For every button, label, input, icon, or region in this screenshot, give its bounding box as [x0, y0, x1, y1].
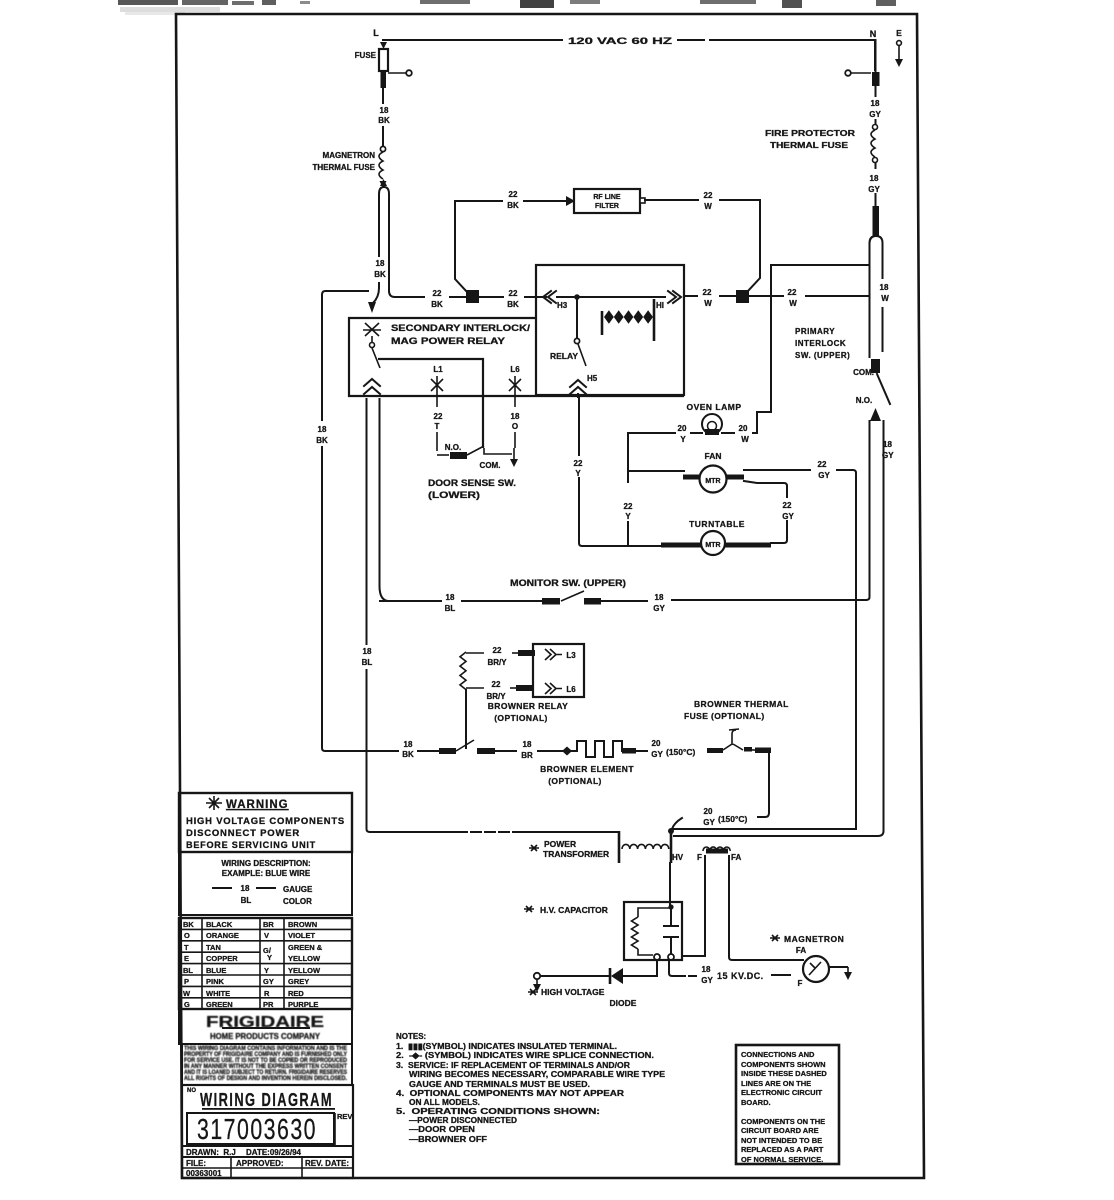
svg-text:(150°C): (150°C): [666, 747, 696, 757]
drawing border frame: [176, 14, 924, 1178]
svg-text:COMPONENTS ON THE: COMPONENTS ON THE: [741, 1117, 825, 1126]
lamp L6: [509, 365, 521, 399]
wire H3 to heater: [557, 294, 654, 300]
svg-text:BK: BK: [431, 300, 443, 309]
svg-text:GAUGE: GAUGE: [283, 885, 313, 894]
svg-text:L: L: [373, 28, 379, 38]
svg-text:ON ALL MODELS.: ON ALL MODELS.: [409, 1098, 480, 1107]
svg-text:TRANSFORMER: TRANSFORMER: [543, 849, 609, 859]
svg-text:18: 18: [883, 440, 892, 449]
insulated terminal (22W wire): [736, 290, 749, 303]
fan motor: [683, 451, 744, 493]
contact H1: [655, 291, 681, 310]
svg-text:APPROVED:: APPROVED:: [236, 1159, 284, 1168]
primary interlock sw (upper): [795, 236, 892, 360]
svg-text:GY: GY: [882, 451, 894, 460]
svg-text:YELLOW: YELLOW: [288, 954, 321, 963]
primary interlock COM contact: [853, 359, 890, 421]
svg-text:1. ▮▮▮(SYMBOL) INDICATES INSU: 1. ▮▮▮(SYMBOL) INDICATES INSULATED TERMI…: [396, 1042, 617, 1051]
svg-text:COPPER: COPPER: [206, 954, 238, 963]
svg-text:COLOR: COLOR: [283, 897, 312, 906]
secondary interlock box: [349, 318, 684, 396]
svg-text:Y: Y: [625, 512, 631, 521]
oven lamp: [686, 402, 741, 435]
svg-text:FIRE PROTECTOR: FIRE PROTECTOR: [765, 129, 855, 138]
transformer secondary leads: [670, 856, 803, 960]
fire protector thermal fuse: [765, 125, 878, 163]
svg-text:WARNING: WARNING: [226, 799, 289, 811]
svg-text:18: 18: [446, 593, 455, 602]
magnetron: [770, 934, 852, 988]
svg-text:BK: BK: [374, 270, 386, 279]
svg-text:18: 18: [380, 106, 389, 115]
svg-text:317003630: 317003630: [197, 1114, 317, 1146]
wire 18 BK (fuse to thermal fuse): [378, 89, 390, 145]
wire 22 BR/Y upper: [466, 646, 535, 667]
svg-text:BR: BR: [263, 920, 274, 929]
fuse: [355, 49, 412, 88]
door sense sw label: [428, 478, 516, 500]
svg-text:Y: Y: [680, 435, 686, 444]
svg-text:18: 18: [880, 283, 889, 292]
svg-text:REPLACED AS A PART: REPLACED AS A PART: [741, 1145, 824, 1154]
svg-text:DISCONNECT POWER: DISCONNECT POWER: [186, 828, 300, 839]
node L: [373, 28, 387, 49]
wire 120 VAC 60 HZ: [383, 36, 875, 70]
svg-text:00363001: 00363001: [186, 1169, 222, 1178]
svg-text:W: W: [704, 202, 712, 211]
svg-text:(150°C): (150°C): [718, 814, 748, 824]
svg-text:BROWNER THERMAL: BROWNER THERMAL: [694, 699, 789, 709]
svg-text:INSIDE THESE DASHED: INSIDE THESE DASHED: [741, 1069, 827, 1078]
svg-text:ALL RIGHTS OF DESIGN AND INVEN: ALL RIGHTS OF DESIGN AND INVENTION HEREI…: [184, 1075, 347, 1082]
svg-text:FUSE: FUSE: [355, 51, 377, 60]
svg-text:O: O: [512, 422, 518, 431]
wire 18 BK browner line: [402, 740, 439, 759]
warning box: [179, 793, 352, 852]
svg-text:GY: GY: [263, 977, 274, 986]
wire 22 Y (H5 down): [574, 397, 661, 546]
L1 L6 pilot box: [378, 359, 483, 448]
svg-text:H5: H5: [587, 374, 598, 383]
svg-text:BEFORE SERVICING UNIT: BEFORE SERVICING UNIT: [186, 840, 316, 851]
browner thermal fuse: [684, 699, 789, 753]
RF line filter: [574, 189, 645, 213]
svg-text:BL: BL: [362, 658, 373, 667]
svg-text:PR: PR: [263, 1000, 274, 1009]
svg-text:20: 20: [652, 739, 661, 748]
svg-text:22: 22: [574, 459, 583, 468]
svg-text:22: 22: [433, 289, 442, 298]
svg-text:TAN: TAN: [206, 943, 221, 952]
power transformer: [370, 828, 741, 863]
svg-text:BK: BK: [402, 750, 414, 759]
svg-text:BK: BK: [316, 436, 328, 445]
magnetron thermal fuse: [312, 146, 386, 188]
svg-text:W: W: [741, 435, 749, 444]
wire 22 BR/Y lower: [466, 680, 533, 701]
svg-text:2. -◆- (SYMBOL) INDICATES WIR: 2. -◆- (SYMBOL) INDICATES WIRE SPLICE CO…: [396, 1051, 654, 1060]
door sense switch N.O.: [445, 443, 512, 470]
svg-text:DRAWN: R.J: DRAWN: R.J: [186, 1148, 236, 1157]
svg-text:L1: L1: [433, 365, 443, 374]
svg-text:CIRCUIT BOARD ARE: CIRCUIT BOARD ARE: [741, 1126, 819, 1135]
svg-text:MONITOR SW. (UPPER): MONITOR SW. (UPPER): [510, 578, 626, 588]
svg-text:F: F: [697, 853, 702, 862]
svg-text:DATE:09/26/94: DATE:09/26/94: [246, 1148, 302, 1157]
svg-text:BL: BL: [241, 896, 252, 905]
svg-text:(OPTIONAL): (OPTIONAL): [548, 776, 602, 786]
svg-text:22: 22: [783, 501, 792, 510]
svg-text:18: 18: [511, 412, 520, 421]
svg-text:22: 22: [492, 680, 501, 689]
svg-text:P: P: [184, 977, 189, 986]
svg-text:3. SERVICE: IF REPLACEMENT OF: 3. SERVICE: IF REPLACEMENT OF TERMINALS …: [396, 1061, 630, 1070]
secondary interlock contact: [363, 323, 381, 394]
RF branch wire 22 BK: [455, 190, 575, 292]
svg-text:H3: H3: [557, 301, 568, 310]
svg-text:—POWER DISCONNECTED: —POWER DISCONNECTED: [409, 1116, 517, 1125]
svg-text:COM.: COM.: [853, 368, 874, 377]
svg-text:GY: GY: [651, 750, 663, 759]
manufacturer logo block: [179, 1009, 352, 1044]
svg-text:WIRING DIAGRAM: WIRING DIAGRAM: [200, 1090, 333, 1110]
wire 18 GY 15 KV.DC.: [669, 960, 790, 985]
svg-text:WIRING DESCRIPTION:: WIRING DESCRIPTION:: [221, 859, 310, 868]
svg-text:BROWN: BROWN: [288, 920, 317, 929]
svg-text:PRIMARY: PRIMARY: [795, 327, 835, 336]
svg-text:N.O.: N.O.: [445, 443, 461, 452]
svg-text:W: W: [183, 989, 191, 998]
svg-text:R: R: [264, 989, 270, 998]
svg-text:N.O.: N.O.: [856, 396, 872, 405]
svg-text:F: F: [798, 979, 803, 988]
svg-text:(OPTIONAL): (OPTIONAL): [494, 713, 548, 723]
svg-text:Y: Y: [575, 469, 581, 478]
svg-text:TURNTABLE: TURNTABLE: [689, 519, 745, 529]
svg-text:DOOR SENSE SW.: DOOR SENSE SW.: [428, 478, 516, 488]
svg-text:4. OPTIONAL COMPONENTS MAY NO: 4. OPTIONAL COMPONENTS MAY NOT APPEAR: [396, 1089, 624, 1098]
svg-text:REV.: REV.: [337, 1112, 354, 1121]
connector bar: [873, 206, 880, 237]
svg-text:VIOLET: VIOLET: [288, 931, 316, 940]
svg-text:N: N: [870, 29, 877, 39]
svg-text:T: T: [435, 422, 440, 431]
svg-text:5. OPERATING CONDITIONS SHOWN: 5. OPERATING CONDITIONS SHOWN:: [396, 1107, 600, 1116]
svg-text:L3: L3: [566, 651, 576, 660]
svg-text:GREY: GREY: [288, 977, 309, 986]
lamp L1: [431, 365, 443, 399]
svg-text:20: 20: [704, 807, 713, 816]
wire/bus 18 BK left: [316, 291, 398, 751]
svg-text:H.V. CAPACITOR: H.V. CAPACITOR: [540, 905, 608, 915]
svg-text:INTERLOCK: INTERLOCK: [795, 339, 846, 348]
wire 18 O: [510, 399, 520, 467]
svg-text:COMPONENTS SHOWN: COMPONENTS SHOWN: [741, 1060, 826, 1069]
svg-text:GY: GY: [782, 512, 794, 521]
svg-text:RED: RED: [288, 989, 304, 998]
relay enclosure box: [536, 265, 684, 395]
fan wire left: [628, 470, 684, 472]
notes: [396, 1032, 666, 1144]
svg-text:THERMAL FUSE: THERMAL FUSE: [770, 141, 849, 150]
fan to turntable branch 22 GY: [744, 481, 794, 543]
svg-text:FUSE (OPTIONAL): FUSE (OPTIONAL): [684, 711, 765, 721]
svg-text:BOARD.: BOARD.: [741, 1098, 771, 1107]
contact H5: [570, 374, 598, 397]
connections note box: [736, 1045, 839, 1164]
browner element: [540, 741, 636, 786]
svg-text:BR/Y: BR/Y: [486, 692, 506, 701]
svg-text:E: E: [184, 954, 189, 963]
node N: [870, 29, 877, 39]
svg-text:ORANGE: ORANGE: [206, 931, 239, 940]
svg-text:PINK: PINK: [206, 977, 225, 986]
svg-text:BR/Y: BR/Y: [487, 658, 507, 667]
svg-text:GY: GY: [703, 818, 715, 827]
svg-text:COM.: COM.: [480, 461, 501, 470]
svg-text:W: W: [789, 299, 797, 308]
svg-text:MAG POWER RELAY: MAG POWER RELAY: [391, 336, 505, 346]
svg-text:ELECTRONIC CIRCUIT: ELECTRONIC CIRCUIT: [741, 1088, 823, 1097]
cut-off text row at very top of scan: [118, 0, 896, 15]
svg-text:THERMAL FUSE: THERMAL FUSE: [312, 163, 375, 172]
svg-text:MTR: MTR: [705, 478, 720, 485]
svg-text:W: W: [881, 294, 889, 303]
browner relay pilot box L3 L6: [533, 644, 584, 697]
insulated terminal (main wire): [466, 290, 479, 303]
svg-text:22: 22: [788, 288, 797, 297]
wire 18 BR: [495, 740, 562, 760]
svg-text:NOT INTENDED TO BE: NOT INTENDED TO BE: [741, 1136, 822, 1145]
svg-text:BROWNER ELEMENT: BROWNER ELEMENT: [540, 764, 634, 774]
svg-text:18: 18: [523, 740, 532, 749]
svg-text:SW. (UPPER): SW. (UPPER): [795, 351, 850, 360]
svg-text:HIGH VOLTAGE COMPONENTS: HIGH VOLTAGE COMPONENTS: [186, 816, 345, 827]
svg-text:BROWNER RELAY: BROWNER RELAY: [488, 701, 568, 711]
wire 18 GY (fuse to interlock): [868, 163, 880, 206]
svg-text:GY: GY: [869, 110, 881, 119]
svg-text:NO: NO: [187, 1088, 196, 1094]
svg-text:HV: HV: [672, 853, 684, 862]
svg-text:PURPLE: PURPLE: [288, 1000, 318, 1009]
svg-text:BK: BK: [507, 300, 519, 309]
svg-text:BL: BL: [183, 966, 193, 975]
svg-text:FA: FA: [731, 853, 741, 862]
svg-text:BL: BL: [445, 604, 456, 613]
svg-text:20: 20: [678, 424, 687, 433]
svg-text:L6: L6: [510, 365, 520, 374]
browner relay label: [488, 701, 568, 723]
svg-text:EXAMPLE: BLUE WIRE: EXAMPLE: BLUE WIRE: [222, 869, 311, 878]
svg-text:MTR: MTR: [705, 542, 720, 549]
svg-text:MAGNETRON: MAGNETRON: [784, 934, 844, 944]
svg-text:18: 18: [376, 259, 385, 268]
svg-text:HOME PRODUCTS COMPANY: HOME PRODUCTS COMPANY: [210, 1032, 321, 1041]
svg-text:HI: HI: [656, 301, 664, 310]
svg-text:18: 18: [702, 965, 711, 974]
wire 22 W (filter to corner): [645, 191, 760, 291]
svg-text:18: 18: [870, 174, 879, 183]
wire 22 Y rail (lamp/fan to turntable): [624, 433, 633, 546]
svg-text:BK: BK: [183, 920, 194, 929]
svg-text:GREEN &: GREEN &: [288, 943, 323, 952]
svg-text:Y: Y: [264, 966, 269, 975]
svg-text:CONNECTIONS AND: CONNECTIONS AND: [741, 1050, 815, 1059]
svg-text:REV. DATE:: REV. DATE:: [305, 1159, 349, 1168]
svg-text:OF NORMAL SERVICE.: OF NORMAL SERVICE.: [741, 1155, 823, 1164]
title block: [182, 1085, 354, 1178]
svg-text:L6: L6: [566, 685, 576, 694]
svg-text:NOTES:: NOTES:: [396, 1032, 426, 1041]
relay contact (RELAY): [550, 299, 586, 366]
svg-text:V: V: [264, 931, 269, 940]
svg-text:BR: BR: [521, 751, 533, 760]
svg-text:—DOOR OPEN: —DOOR OPEN: [409, 1125, 475, 1134]
svg-text:GY: GY: [818, 471, 830, 480]
svg-text:20: 20: [739, 424, 748, 433]
turntable motor: [661, 519, 771, 555]
wire color code table: [179, 918, 352, 1009]
svg-text:22: 22: [509, 190, 518, 199]
high voltage diode: [528, 960, 657, 1008]
fan wire 22 GY right: [744, 460, 856, 829]
svg-text:18: 18: [363, 647, 372, 656]
svg-text:120 VAC 60 HZ: 120 VAC 60 HZ: [568, 36, 673, 46]
svg-text:22: 22: [624, 502, 633, 511]
svg-text:22: 22: [703, 288, 712, 297]
connector capsule (secondary interlock to monitor line): [358, 399, 388, 832]
svg-text:LINES ARE ON THE: LINES ARE ON THE: [741, 1079, 811, 1088]
svg-text:18: 18: [655, 593, 664, 602]
return bus wires to transformer: [672, 828, 856, 830]
svg-text:OVEN LAMP: OVEN LAMP: [686, 402, 741, 412]
svg-text:BK: BK: [378, 116, 390, 125]
wire description box: [179, 852, 352, 915]
HV capacitor: [524, 902, 682, 960]
svg-text:22: 22: [818, 460, 827, 469]
small print paragraph: [182, 1044, 352, 1085]
svg-text:22: 22: [509, 289, 518, 298]
svg-text:RF LINE: RF LINE: [593, 194, 621, 201]
svg-text:WHITE: WHITE: [206, 989, 230, 998]
svg-text:22: 22: [434, 412, 443, 421]
svg-text:T: T: [184, 943, 189, 952]
svg-text:SECONDARY INTERLOCK/: SECONDARY INTERLOCK/: [391, 323, 531, 333]
svg-text:DIODE: DIODE: [610, 998, 637, 1008]
svg-text:18: 18: [318, 425, 327, 434]
svg-text:22: 22: [704, 191, 713, 200]
browner relay coil: [460, 652, 466, 748]
splice junction: [562, 747, 572, 756]
svg-text:YELLOW: YELLOW: [288, 966, 321, 975]
wire 22 W (junction to interlock): [749, 288, 869, 308]
svg-text:BLUE: BLUE: [206, 966, 226, 975]
terminal at N: [845, 40, 879, 86]
wire 22 BK (to relay box): [479, 289, 546, 309]
svg-text:18: 18: [404, 740, 413, 749]
svg-text:22: 22: [493, 646, 502, 655]
monitor switch (upper): [380, 578, 866, 613]
svg-text:(LOWER): (LOWER): [428, 490, 480, 500]
svg-text:GAUGE AND TERMINALS MUST BE US: GAUGE AND TERMINALS MUST BE USED.: [409, 1080, 590, 1089]
svg-text:FA: FA: [796, 946, 806, 955]
connector capsule (N.O. down): [674, 421, 894, 836]
contact H3: [543, 291, 568, 310]
svg-text:BLACK: BLACK: [206, 920, 233, 929]
browner switch: [439, 740, 495, 754]
wire 22 W (relay to junction): [684, 288, 736, 308]
svg-text:RELAY: RELAY: [550, 351, 578, 361]
wire 20 GY (150 C): [636, 739, 723, 759]
svg-text:FAN: FAN: [705, 451, 722, 461]
svg-text:GY: GY: [653, 604, 665, 613]
svg-text:GY: GY: [701, 976, 713, 985]
wire 22 T: [434, 399, 449, 455]
svg-text:W: W: [704, 299, 712, 308]
ground E: [895, 28, 903, 67]
svg-text:18: 18: [871, 99, 880, 108]
svg-text:BK: BK: [507, 201, 519, 210]
svg-text:POWER: POWER: [544, 839, 576, 849]
svg-text:HIGH VOLTAGE: HIGH VOLTAGE: [541, 987, 605, 997]
svg-text:FILE:: FILE:: [186, 1159, 206, 1168]
oven lamp wires 20 Y / 20 W: [628, 265, 869, 444]
browner return wire 20 GY 150C: [672, 752, 769, 829]
wire 18 GY: [869, 86, 881, 124]
svg-text:15 KV.DC.: 15 KV.DC.: [717, 971, 764, 981]
svg-text:WIRING BECOMES NECESSARY, COMP: WIRING BECOMES NECESSARY, COMPARABLE WIR…: [409, 1070, 666, 1079]
svg-text:GREEN: GREEN: [206, 1000, 233, 1009]
wire 22 BK: [395, 289, 466, 309]
svg-text:18: 18: [241, 884, 250, 893]
svg-text:O: O: [184, 931, 190, 940]
svg-text:E: E: [896, 28, 902, 38]
connector loop below thermal fuse: [368, 179, 395, 313]
relay heater coil: [602, 299, 654, 341]
svg-text:Y: Y: [267, 953, 272, 962]
svg-text:G: G: [184, 1000, 190, 1009]
svg-text:—BROWNER OFF: —BROWNER OFF: [409, 1135, 487, 1144]
svg-text:MAGNETRON: MAGNETRON: [323, 151, 376, 160]
svg-text:FILTER: FILTER: [595, 203, 619, 210]
svg-text:GY: GY: [868, 185, 880, 194]
